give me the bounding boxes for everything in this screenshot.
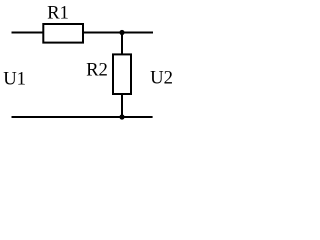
resistor R1 [43, 3, 83, 43]
node B junction dot [119, 114, 124, 119]
wire left input top [12, 32, 44, 34]
svg-text:R1: R1 [47, 3, 69, 24]
wire R1 to node A [83, 32, 153, 34]
svg-text:U1: U1 [3, 69, 26, 90]
wire R2 bottom to node B [121, 94, 123, 117]
wire node A to R2 top [121, 33, 123, 55]
node A junction dot [119, 30, 124, 35]
svg-text:U2: U2 [150, 67, 173, 88]
resistor R2 [86, 54, 131, 94]
svg-text:R2: R2 [86, 59, 108, 80]
wire bottom return [12, 116, 153, 118]
